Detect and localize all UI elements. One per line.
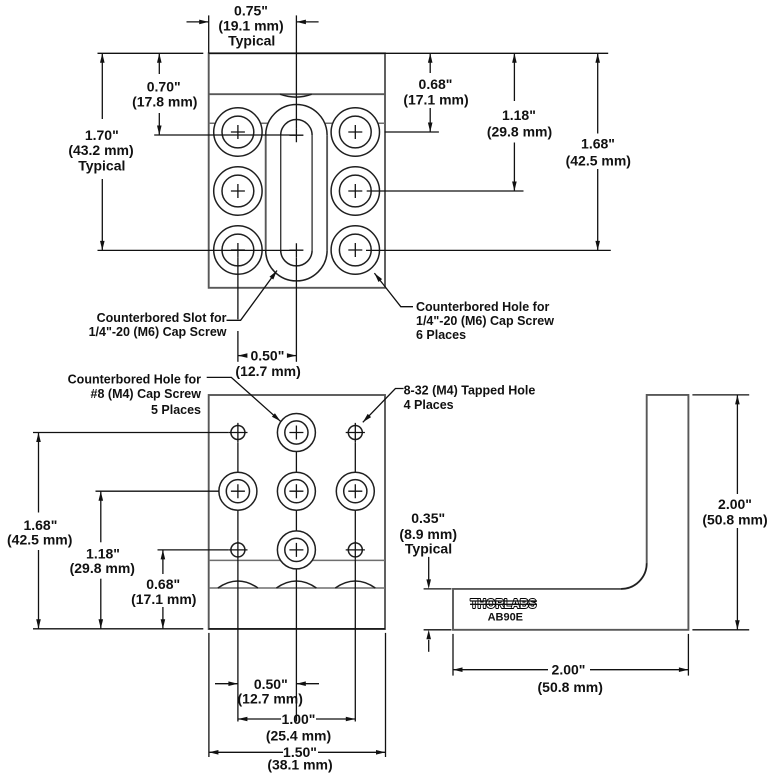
extension line row B left	[96, 490, 219, 492]
svg-text:#8 (M4) Cap Screw: #8 (M4) Cap Screw	[91, 387, 202, 401]
extension line: row2 right	[367, 190, 524, 192]
svg-text:0.68": 0.68"	[146, 576, 180, 592]
extension line row A left	[33, 432, 228, 434]
svg-text:Counterbored Slot for: Counterbored Slot for	[97, 311, 227, 325]
svg-text:(29.8 mm): (29.8 mm)	[487, 124, 552, 140]
svg-text:1.00": 1.00"	[282, 711, 316, 727]
svg-text:0.68": 0.68"	[419, 76, 453, 92]
svg-text:2.00": 2.00"	[718, 496, 752, 512]
svg-text:1/4"-20 (M6) Cap Screw: 1/4"-20 (M6) Cap Screw	[416, 314, 554, 328]
extension line: 0.70 reference through row1	[154, 134, 296, 136]
svg-text:8-32 (M4) Tapped Hole: 8-32 (M4) Tapped Hole	[404, 384, 536, 398]
top view: front face outline 1.50 x 2.00	[209, 53, 385, 287]
counterbored hole top-view row2 right	[331, 167, 379, 215]
svg-text:0.50": 0.50"	[250, 348, 284, 364]
top view: hidden edge line behind holes	[209, 122, 385, 124]
svg-text:Typical: Typical	[405, 540, 452, 556]
tapped hole row A right	[348, 426, 362, 440]
svg-text:6 Places: 6 Places	[416, 328, 466, 342]
extension line: row3	[98, 249, 297, 251]
svg-text:1.70": 1.70"	[85, 127, 119, 143]
svg-text:Typical: Typical	[78, 157, 125, 173]
svg-text:(25.4 mm): (25.4 mm)	[266, 728, 331, 744]
label: counterbored hole 5 places leader	[207, 377, 281, 421]
slot vertical centerline	[295, 15, 297, 128]
dimension 1.68 (42.5 mm) bottom view	[38, 433, 40, 513]
counterbored hole row B right	[336, 472, 374, 510]
svg-text:(50.8 mm): (50.8 mm)	[538, 679, 603, 695]
svg-text:2.00": 2.00"	[552, 661, 586, 677]
svg-text:(12.7 mm): (12.7 mm)	[235, 363, 300, 379]
dimension 0.68 (17.1 mm) bottom view	[162, 550, 164, 574]
extension lines bottom 2.00 dim	[452, 634, 454, 676]
svg-text:Counterbored Hole for: Counterbored Hole for	[68, 373, 201, 387]
dimension 1.50 (38.1 mm) bottom view	[209, 751, 283, 753]
dimension 1.18 (29.8 mm) bottom view	[100, 491, 102, 542]
svg-text:(12.7 mm): (12.7 mm)	[238, 691, 303, 707]
tapped hole row A left	[231, 426, 245, 440]
svg-text:1.68": 1.68"	[23, 517, 57, 533]
counterbored hole row A center	[277, 414, 315, 452]
svg-text:1.18": 1.18"	[86, 545, 120, 561]
dimension 1.70 (43.2 mm) Typical	[101, 53, 103, 119]
dimension 0.70 (17.8 mm)	[158, 53, 160, 74]
dimension 0.75 (19.1 mm) Typical	[187, 21, 209, 23]
extension lines for 0.50 dim below slot	[237, 257, 239, 319]
extension line row C left	[158, 549, 229, 551]
counterbored hole top-view row3 left	[214, 226, 262, 274]
extension lines right 2.00 dim	[692, 394, 749, 396]
svg-text:AB90E: AB90E	[488, 612, 523, 624]
label: counterbored slot leader	[227, 271, 278, 321]
dimension 1.00 (25.4 mm) bottom view	[238, 718, 281, 720]
counterbored hole row C center	[277, 531, 315, 569]
svg-text:(29.8 mm): (29.8 mm)	[70, 560, 135, 576]
counterbored hole row B center	[277, 472, 315, 510]
counterbored hole row B left	[219, 472, 257, 510]
dimension 1.68 (42.5 mm) top view	[597, 53, 599, 133]
svg-text:(42.5 mm): (42.5 mm)	[566, 152, 631, 168]
svg-text:5 Places: 5 Places	[151, 403, 201, 417]
svg-text:1.18": 1.18"	[502, 107, 536, 123]
svg-text:Counterbored Hole for: Counterbored Hole for	[416, 300, 549, 314]
svg-text:(19.1 mm): (19.1 mm)	[218, 18, 283, 34]
counterbored hole top-view row3 right	[331, 226, 379, 274]
extension line: row1 right	[385, 131, 439, 133]
slot inner boundary	[281, 120, 312, 266]
dimension 1.18 (29.8 mm) top view	[513, 53, 515, 101]
svg-text:(50.8 mm): (50.8 mm)	[702, 512, 767, 528]
bottom view: horizontal leg outline 1.50 x 2.00	[209, 395, 385, 629]
svg-text:1/4"-20 (M6) Cap Screw: 1/4"-20 (M6) Cap Screw	[89, 325, 227, 339]
extension line bottom reference	[33, 628, 203, 630]
label: 8-32 tapped hole 4 places leader	[363, 389, 404, 423]
svg-text:0.50": 0.50"	[254, 676, 288, 692]
tapped hole row C left	[231, 543, 245, 557]
dimension 0.50 (12.7 mm) top view	[238, 355, 247, 357]
svg-text:0.75": 0.75"	[234, 2, 268, 18]
counterbored hole top-view row1 left	[214, 108, 262, 156]
side view: L bracket profile	[453, 395, 688, 630]
svg-text:(38.1 mm): (38.1 mm)	[267, 757, 332, 773]
svg-text:(17.1 mm): (17.1 mm)	[131, 591, 196, 607]
counterbored hole top-view row2 left	[214, 167, 262, 215]
tapped hole row C right	[348, 543, 362, 557]
hole center crosshairs top view	[231, 125, 245, 139]
dimension 2.00 (50.8 mm) right	[736, 395, 738, 494]
extension lines for 1.50 dim	[208, 633, 210, 757]
top view: top face edge with counterbore break	[209, 93, 385, 95]
column centerlines bottom view	[237, 442, 239, 472]
counterbored slot outer boundary	[266, 105, 327, 281]
hole crosshairs bottom view	[228, 423, 247, 442]
svg-text:1.68": 1.68"	[581, 136, 615, 152]
svg-text:0.35": 0.35"	[411, 510, 445, 526]
dimension 0.68 (17.1 mm) top view	[429, 53, 431, 73]
svg-text:4 Places: 4 Places	[404, 398, 454, 412]
svg-text:(42.5 mm): (42.5 mm)	[7, 532, 72, 548]
dimension 0.50 (12.7 mm) bottom view	[215, 683, 238, 685]
dimension 2.00 (50.8 mm) bottom	[453, 669, 548, 671]
svg-text:0.70": 0.70"	[147, 78, 181, 94]
counterbored hole top-view row1 right	[331, 108, 379, 156]
bottom view: fillet tangent edge	[209, 559, 385, 561]
extension line: left edge extended up	[208, 15, 210, 53]
extension line: top edge extended	[98, 52, 204, 54]
svg-text:(43.2 mm): (43.2 mm)	[68, 142, 133, 158]
svg-text:(17.8 mm): (17.8 mm)	[132, 94, 197, 110]
svg-text:(17.1 mm): (17.1 mm)	[403, 92, 468, 108]
svg-text:Typical: Typical	[228, 33, 275, 49]
bottom view: vertical leg inner face edge with thread arcs	[209, 587, 385, 589]
label: counterbored hole 6 places leader	[374, 273, 413, 307]
